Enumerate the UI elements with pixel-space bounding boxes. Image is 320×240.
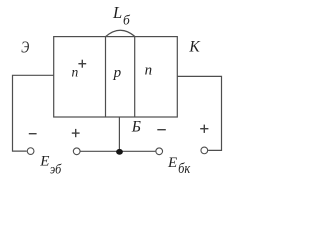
svg-text:E: E xyxy=(167,155,177,171)
svg-text:б: б xyxy=(123,12,131,27)
svg-text:эб: эб xyxy=(50,161,62,177)
svg-text:L: L xyxy=(112,3,122,22)
svg-text:n: n xyxy=(72,65,79,80)
svg-text:Б: Б xyxy=(131,119,141,136)
svg-text:Э: Э xyxy=(21,39,29,57)
svg-text:E: E xyxy=(39,154,49,170)
svg-text:К: К xyxy=(188,39,200,56)
svg-text:n: n xyxy=(145,63,153,79)
svg-text:бк: бк xyxy=(178,160,191,176)
svg-text:p: p xyxy=(113,65,122,81)
